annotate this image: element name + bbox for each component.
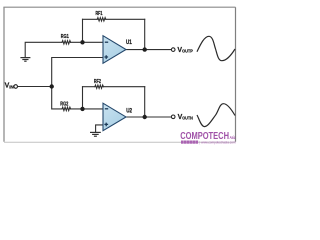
resistor RG2	[62, 107, 71, 110]
resistor RG1	[62, 41, 71, 44]
terminal VOUTN	[171, 115, 175, 119]
terminal VOUTP	[171, 48, 175, 52]
node: RG2/RF2 inverting junction	[80, 107, 84, 111]
waveform: VOUTN sine	[197, 104, 235, 127]
svg-text:U2: U2	[126, 107, 132, 114]
svg-text:U1: U1	[126, 39, 132, 46]
svg-text:RG2: RG2	[60, 101, 68, 107]
wire: U1 output to VOUTP terminal	[126, 49, 171, 51]
svg-text:Asia: Asia	[229, 135, 236, 140]
wire: RG2 to U2 inverting input	[71, 108, 103, 110]
node: VIN input junction	[50, 84, 54, 88]
wire: RF2 feedback left vertical	[82, 87, 84, 109]
ground GND2	[90, 132, 101, 136]
svg-text:RG1: RG1	[61, 34, 69, 40]
node: U2 output/feedback junction	[143, 115, 147, 119]
svg-text:VOUTN: VOUTN	[178, 114, 193, 121]
waveform: VOUTP sine	[197, 36, 235, 60]
wire: RF1 feedback top rail left segment	[83, 18, 98, 20]
wire: ground branch to RG1 (inverting input rail, y=42)	[25, 42, 62, 57]
wire: input node down to RG2 rail	[52, 87, 62, 109]
wire: RG1 to U1 inverting input	[71, 41, 103, 43]
svg-text:VOUTP: VOUTP	[177, 47, 193, 54]
op-amp U1	[103, 36, 126, 64]
op-amp U2	[103, 103, 126, 131]
wire: RF1 feedback top rail right segment	[106, 18, 145, 20]
wire: RF2 feedback top rail left segment	[83, 86, 95, 88]
logo COMPOTECH Asia watermark	[180, 131, 236, 142]
logo tagline: chinese slogan + url	[181, 141, 236, 145]
wire: U2 noninverting input to ground drop	[96, 125, 103, 132]
wire: VIN terminal to input node	[18, 86, 52, 88]
wire: RF1 feedback left vertical	[82, 19, 84, 42]
frame border (decorative)	[3, 7, 235, 142]
resistor RF1	[97, 18, 106, 21]
wire: RF2 feedback top rail right segment	[103, 86, 144, 88]
svg-text:VIN: VIN	[5, 83, 14, 90]
node: U1 output/feedback junction	[143, 47, 147, 51]
wire: RF1 feedback right vertical to output	[144, 19, 146, 49]
svg-text:RF1: RF1	[96, 11, 103, 17]
svg-text:| www.compotechasia.com: | www.compotechasia.com	[200, 141, 236, 145]
wire: RF2 feedback right vertical to output	[144, 87, 146, 117]
terminal VIN	[14, 85, 18, 89]
resistor RF2	[95, 85, 104, 88]
node: RG1/RF1 inverting junction	[80, 40, 84, 44]
svg-text:RF2: RF2	[94, 79, 101, 85]
wire: U2 output to VOUTN terminal	[126, 116, 172, 118]
wire: U1 noninverting input rail (y=57.3)	[52, 58, 103, 87]
ground GND1	[20, 58, 30, 62]
